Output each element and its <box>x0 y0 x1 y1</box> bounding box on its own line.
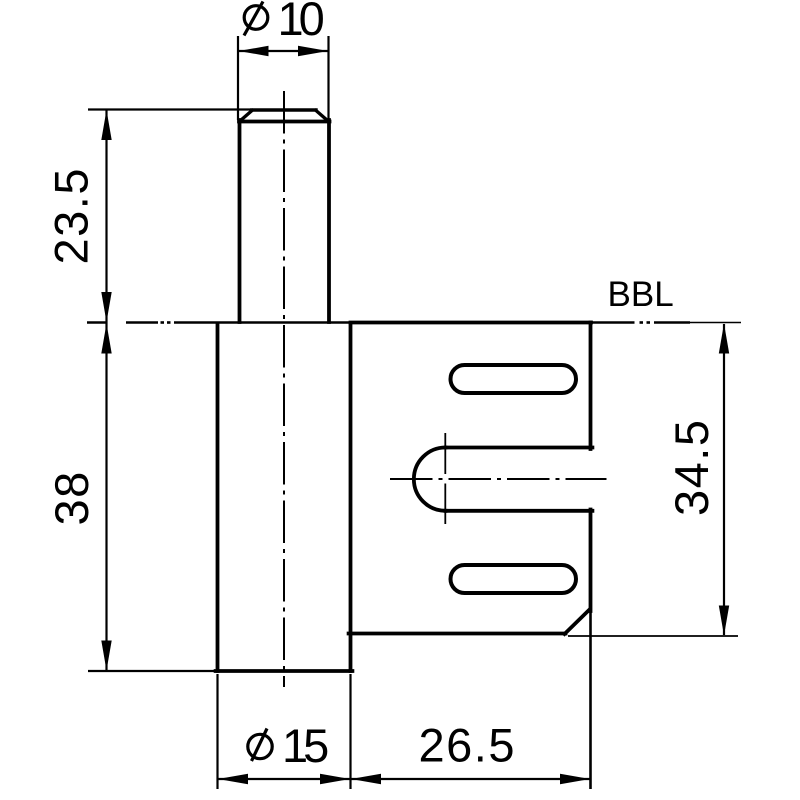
svg-text:26.5: 26.5 <box>419 719 516 772</box>
svg-text:38: 38 <box>45 470 98 525</box>
mounting plate outline <box>349 323 593 635</box>
svg-text:34.5: 34.5 <box>665 419 718 516</box>
svg-text:15: 15 <box>282 719 328 772</box>
notch center line horizontal <box>390 478 607 480</box>
pin Ø10 outline <box>239 110 330 322</box>
Ø symbol of Ø15 <box>248 734 272 758</box>
slot upper <box>451 365 577 393</box>
notch center line vertical <box>444 433 446 524</box>
barrel Ø15 outline <box>216 324 353 671</box>
Ø symbol of Ø10 <box>244 6 268 30</box>
svg-text:23.5: 23.5 <box>45 167 98 264</box>
dimension 23.5 <box>88 108 251 110</box>
svg-text:10: 10 <box>278 0 324 45</box>
center line vertical pin axis <box>283 91 285 687</box>
dimension Ø15 and 26.5 <box>218 612 591 789</box>
dimension 34.5 <box>723 324 725 635</box>
dimension 38 <box>88 670 218 672</box>
dimension Ø10 <box>238 36 329 120</box>
BBL reference line <box>87 321 741 324</box>
svg-text:BBL: BBL <box>608 275 674 314</box>
slot lower <box>451 565 577 593</box>
